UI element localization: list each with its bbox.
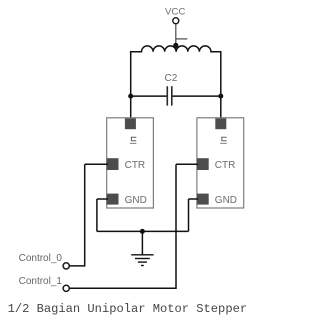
- svg-text:CTR: CTR: [125, 160, 146, 171]
- wire C2 left lead: [131, 95, 167, 97]
- pin U1 GND pad: [107, 194, 119, 205]
- capacitor C2 plates: [167, 86, 172, 105]
- ground symbol: [131, 255, 153, 266]
- wire U1 CTR vertical to Control_0: [84, 164, 86, 266]
- pin U1 supply pad: [125, 118, 136, 129]
- pin U1 supply symbol: [130, 137, 137, 143]
- wire ground rail: [97, 230, 189, 232]
- svg-text:1/2 Bagian Unipolar Motor Step: 1/2 Bagian Unipolar Motor Stepper: [8, 302, 248, 316]
- svg-text:VCC: VCC: [165, 7, 185, 18]
- wire right winding end down to U2 supply pin: [220, 51, 222, 123]
- wire Control_1 horizontal: [69, 287, 177, 289]
- wire U2 CTR vertical to Control_1: [175, 164, 177, 288]
- pin U2 supply symbol: [220, 137, 227, 143]
- wire Control_0 horizontal: [69, 265, 85, 267]
- pin U2 CTR pad: [197, 158, 209, 170]
- wire left winding end down to U1 supply pin: [130, 51, 132, 123]
- wire U1 GND lead: [97, 198, 108, 200]
- node L1 center tap junction: [173, 43, 178, 48]
- wire U1 CTR lead: [85, 163, 108, 165]
- wire U2 GND vertical up from ground rail: [188, 199, 190, 231]
- driver IC U2 body: [197, 118, 244, 208]
- node ground rail junction: [140, 229, 145, 234]
- wire VCC stem down to center tap: [175, 24, 177, 52]
- wire C2 right lead: [172, 95, 220, 97]
- wire ground stem: [141, 231, 143, 254]
- svg-text:GND: GND: [215, 195, 237, 206]
- wire center tap tick mark: [176, 38, 188, 40]
- wire U1 GND vertical down to ground rail: [96, 199, 98, 231]
- wire U2 GND lead: [189, 198, 199, 200]
- power VCC terminal circle: [173, 18, 179, 24]
- svg-text:Control_0: Control_0: [19, 253, 63, 264]
- pin U1 CTR pad: [107, 158, 119, 170]
- svg-text:Control_1: Control_1: [19, 276, 63, 287]
- wire U2 CTR lead: [176, 163, 198, 165]
- driver IC U1 body: [107, 118, 154, 208]
- port Control_1 terminal circle: [63, 285, 69, 291]
- node junction C2 right: [218, 94, 223, 99]
- node junction C2 left: [128, 94, 133, 99]
- svg-text:C2: C2: [165, 73, 178, 84]
- pin U2 supply pad: [215, 118, 226, 129]
- svg-text:CTR: CTR: [215, 160, 236, 171]
- svg-text:GND: GND: [125, 195, 147, 206]
- pin U2 GND pad: [197, 194, 209, 205]
- port Control_0 terminal circle: [63, 263, 69, 269]
- inductor L1 motor winding: [131, 46, 221, 52]
